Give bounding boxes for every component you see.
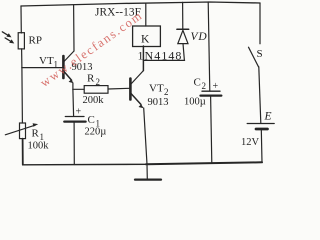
wire diode bottom to K node wire: [183, 44, 184, 61]
capacitor C1: [65, 116, 84, 118]
svg-text:+: +: [76, 107, 82, 118]
svg-text:100k: 100k: [28, 141, 50, 152]
svg-text:K: K: [141, 33, 150, 45]
svg-text:S: S: [257, 48, 263, 60]
wire R1 to bottom rail: [22, 139, 24, 165]
wire K to top rail: [145, 3, 147, 26]
wire VT1 emitter down to junction: [72, 83, 74, 89]
svg-text:R: R: [32, 128, 40, 140]
svg-text:100µ: 100µ: [184, 97, 206, 108]
svg-text:200k: 200k: [83, 95, 105, 106]
wire R2 to VT2 base: [108, 87, 130, 90]
svg-text:R: R: [87, 73, 95, 85]
battery E negative plate: [256, 128, 268, 131]
light arrow 2 into RP: [5, 38, 11, 42]
wire base node down to R1: [21, 68, 24, 123]
svg-text:220µ: 220µ: [85, 126, 107, 137]
svg-text:C: C: [88, 114, 95, 126]
wire junction to R2: [73, 88, 84, 90]
svg-text:VT: VT: [39, 55, 54, 67]
svg-text:+: +: [213, 81, 219, 92]
battery E positive plate: [247, 123, 274, 125]
wire switch to battery: [259, 67, 261, 123]
wire diode top to rail: [182, 2, 184, 29]
wire RP to base node: [21, 49, 23, 68]
wire battery to bottom rail corner: [260, 129, 263, 162]
transistor VT1: [62, 56, 65, 78]
svg-text:12V: 12V: [241, 137, 260, 148]
wire C1 to bottom rail: [73, 122, 75, 165]
wire K bottom node to diode VD: [143, 59, 184, 61]
ground symbol: [146, 164, 148, 179]
switch S blade: [249, 47, 259, 67]
diode VD: [177, 28, 189, 30]
resistor R2: [84, 86, 108, 94]
svg-text:VD: VD: [191, 31, 208, 43]
wire VT2 emitter down to bottom rail: [144, 108, 147, 164]
transistor VT2: [129, 79, 132, 100]
wire right branch from top rail corner to switch: [259, 3, 261, 44]
capacitor C2: [202, 90, 220, 92]
light arrow 1 into RP: [2, 32, 8, 36]
wire C2 to bottom rail: [211, 96, 212, 163]
svg-text:2: 2: [164, 87, 169, 97]
svg-text:2: 2: [96, 77, 101, 87]
wire junction down to C1: [72, 89, 75, 116]
svg-text:2: 2: [202, 81, 207, 91]
wire VT1 base: [22, 67, 63, 69]
wire VT1 collector to top rail: [73, 5, 75, 51]
wire bottom rail: [23, 163, 146, 166]
svg-text:9013: 9013: [148, 97, 169, 108]
svg-text:C: C: [194, 77, 201, 89]
svg-text:1N4148: 1N4148: [138, 49, 183, 63]
svg-text:VT: VT: [149, 83, 164, 95]
wire top rail: [21, 2, 260, 6]
svg-text:RP: RP: [29, 35, 42, 47]
relay coil K: [133, 26, 161, 47]
wire C2 branch from top rail: [208, 2, 210, 91]
photoresistor RP: [18, 33, 24, 49]
wire VT2 collector up to K bottom node: [142, 46, 144, 71]
wire left branch from top rail to RP: [20, 6, 22, 33]
variable resistor R1: [20, 123, 26, 139]
svg-text:E: E: [264, 111, 272, 123]
